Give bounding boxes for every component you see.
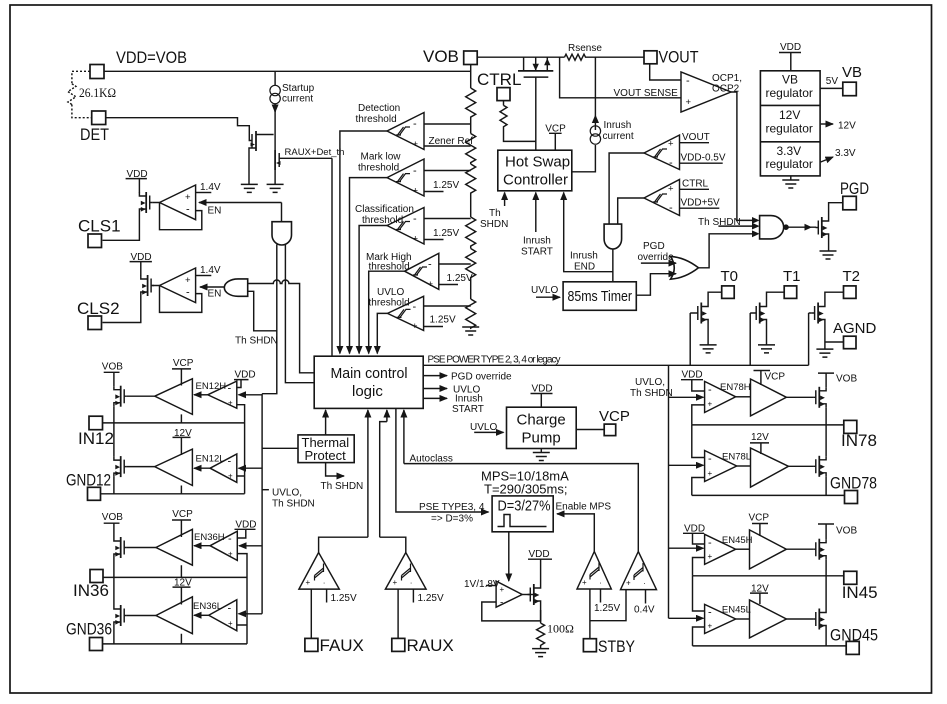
svg-text:Th SHDN: Th SHDN	[321, 481, 364, 492]
svg-text:VDD: VDD	[682, 370, 703, 381]
svg-text:EN45L: EN45L	[722, 605, 751, 616]
svg-text:-: -	[669, 157, 673, 169]
svg-text:100Ω: 100Ω	[547, 622, 574, 636]
svg-text:VCP: VCP	[749, 513, 770, 524]
svg-text:regulator: regulator	[766, 86, 813, 100]
svg-text:+: +	[228, 472, 233, 481]
svg-text:Th: Th	[489, 208, 501, 219]
svg-text:1V/1.8V: 1V/1.8V	[464, 579, 500, 590]
svg-text:IN45: IN45	[842, 583, 878, 602]
svg-text:Inrush: Inrush	[604, 120, 632, 131]
svg-text:VOB: VOB	[836, 526, 857, 537]
svg-text:VDD+5V: VDD+5V	[681, 198, 721, 209]
svg-text:Hot Swap: Hot Swap	[505, 154, 570, 171]
svg-text:D=3/27%: D=3/27%	[498, 498, 551, 515]
svg-text:RAUX: RAUX	[407, 636, 454, 655]
svg-text:Detection: Detection	[358, 103, 400, 114]
svg-text:IN36: IN36	[73, 581, 109, 600]
svg-text:STBY: STBY	[598, 637, 635, 656]
svg-text:.: .	[323, 577, 325, 586]
svg-text:-: -	[500, 598, 503, 609]
svg-text:T=290/305ms;: T=290/305ms;	[484, 482, 567, 497]
svg-text:T1: T1	[783, 268, 801, 285]
svg-text:1.25V: 1.25V	[433, 228, 459, 239]
svg-text:GND12: GND12	[66, 471, 111, 490]
svg-text:GND78: GND78	[830, 474, 877, 493]
svg-text:+: +	[708, 400, 713, 409]
svg-text:regulator: regulator	[766, 122, 813, 136]
svg-text:1.4V: 1.4V	[200, 265, 221, 276]
svg-text:Startup: Startup	[282, 83, 315, 94]
svg-text:Th SHDN: Th SHDN	[272, 499, 315, 510]
svg-text:+: +	[413, 139, 419, 150]
svg-text:-: -	[669, 202, 673, 214]
svg-text:DET: DET	[80, 125, 109, 144]
svg-text:Inrush: Inrush	[570, 251, 598, 262]
svg-text:FAUX: FAUX	[320, 636, 364, 655]
svg-text:EN78H: EN78H	[720, 382, 751, 393]
svg-text:threshold: threshold	[356, 114, 397, 125]
svg-text:+: +	[412, 321, 418, 332]
svg-text:1.4V: 1.4V	[200, 182, 221, 193]
svg-text:EN: EN	[208, 289, 222, 300]
svg-text:threshold: threshold	[358, 163, 399, 174]
svg-text:IN12: IN12	[78, 429, 114, 448]
svg-text:VDD-0.5V: VDD-0.5V	[681, 153, 726, 164]
svg-text:Classification: Classification	[355, 204, 414, 215]
svg-text:+: +	[413, 186, 419, 197]
svg-text:+: +	[185, 275, 191, 286]
svg-text:+: +	[306, 578, 311, 587]
svg-text:-: -	[413, 213, 417, 225]
svg-text:Controller: Controller	[503, 172, 568, 189]
svg-text:VB: VB	[782, 73, 798, 87]
svg-text:12V: 12V	[751, 432, 769, 443]
svg-text:-: -	[228, 603, 232, 615]
svg-text:Main control: Main control	[331, 365, 408, 382]
svg-text:CTRL: CTRL	[682, 179, 709, 190]
svg-text:Inrush: Inrush	[523, 236, 551, 247]
svg-text:12V: 12V	[838, 121, 856, 132]
svg-text:+: +	[626, 579, 631, 588]
svg-text:Th SHDN: Th SHDN	[630, 388, 673, 399]
svg-text:EN12H: EN12H	[196, 381, 227, 392]
svg-text:+: +	[500, 585, 505, 594]
svg-text:Autoclass: Autoclass	[410, 454, 453, 465]
svg-text:+: +	[428, 279, 434, 290]
svg-text:Zener Ref: Zener Ref	[429, 136, 474, 147]
svg-text:VOUT: VOUT	[659, 48, 699, 67]
svg-text:-: -	[686, 75, 690, 87]
svg-text:VCP: VCP	[172, 509, 193, 520]
svg-text:START: START	[521, 247, 553, 258]
svg-text:VCP: VCP	[765, 372, 786, 383]
svg-text:=> D=3%: => D=3%	[431, 514, 473, 525]
svg-text:EN36H: EN36H	[194, 532, 225, 543]
svg-text:current: current	[282, 94, 313, 105]
svg-text:+: +	[708, 469, 713, 478]
svg-text:EN36L: EN36L	[193, 601, 222, 612]
svg-text:1.25V: 1.25V	[331, 593, 357, 604]
svg-text:UVLO,: UVLO,	[272, 488, 302, 499]
svg-text:SHDN: SHDN	[480, 219, 508, 230]
svg-text:Charge: Charge	[517, 412, 566, 429]
svg-text:PGD: PGD	[840, 179, 869, 198]
svg-text:1.25V: 1.25V	[430, 315, 456, 326]
svg-text:VOB: VOB	[423, 47, 459, 66]
svg-text:END: END	[574, 262, 595, 273]
svg-text:+: +	[668, 139, 674, 150]
svg-text:AGND: AGND	[833, 320, 877, 337]
svg-text:+: +	[708, 552, 713, 561]
svg-text:GND36: GND36	[66, 620, 112, 639]
svg-text:EN45H: EN45H	[722, 535, 753, 546]
svg-text:PGD: PGD	[643, 241, 665, 252]
svg-text:CLS2: CLS2	[77, 299, 120, 318]
svg-text:logic: logic	[352, 383, 383, 400]
svg-text:VOUT SENSE: VOUT SENSE	[614, 88, 679, 99]
svg-text:VOB: VOB	[102, 512, 123, 523]
svg-text:UVLO: UVLO	[377, 287, 404, 298]
svg-text:+: +	[228, 550, 233, 559]
svg-text:-: -	[428, 259, 432, 271]
svg-text:VDD=VOB: VDD=VOB	[116, 48, 187, 67]
svg-text:PGD override: PGD override	[451, 372, 512, 383]
svg-text:VB: VB	[842, 64, 862, 81]
svg-text:+: +	[413, 234, 419, 245]
svg-text:CTRL: CTRL	[477, 70, 521, 89]
svg-text:-: -	[186, 204, 190, 216]
svg-text:VCP: VCP	[599, 408, 630, 425]
svg-text:VDD: VDD	[235, 370, 256, 381]
svg-text:VOUT: VOUT	[682, 132, 710, 143]
svg-text:5V: 5V	[826, 76, 839, 87]
svg-text:.: .	[410, 577, 412, 586]
svg-text:regulator: regulator	[766, 157, 813, 171]
svg-text:+: +	[708, 622, 713, 631]
svg-text:26.1KΩ: 26.1KΩ	[79, 85, 116, 100]
svg-text:current: current	[603, 131, 634, 142]
svg-text:UVLO: UVLO	[470, 422, 497, 433]
svg-text:-: -	[228, 533, 232, 545]
svg-text:-: -	[228, 456, 232, 468]
svg-text:3.3V: 3.3V	[835, 148, 856, 159]
svg-text:-: -	[186, 287, 190, 299]
svg-text:-: -	[413, 301, 417, 313]
svg-text:-: -	[708, 607, 712, 619]
svg-text:threshold: threshold	[369, 298, 410, 309]
svg-text:+: +	[228, 399, 233, 408]
svg-text:IN78: IN78	[841, 431, 877, 450]
svg-text:Rsense: Rsense	[568, 43, 602, 54]
svg-text:.: .	[644, 577, 646, 586]
svg-text:VDD: VDD	[780, 42, 801, 53]
svg-text:-: -	[708, 453, 712, 465]
svg-text:-: -	[708, 384, 712, 396]
svg-text:+: +	[668, 184, 674, 195]
svg-text:OCP1,: OCP1,	[712, 73, 742, 84]
svg-text:-: -	[228, 383, 232, 395]
svg-text:Th SHDN: Th SHDN	[235, 336, 278, 347]
svg-text:VOB: VOB	[102, 362, 123, 373]
svg-text:1.25V: 1.25V	[447, 273, 473, 284]
svg-text:VDD: VDD	[529, 549, 550, 560]
svg-text:T0: T0	[721, 268, 739, 285]
svg-text:VCP: VCP	[173, 358, 194, 369]
svg-text:Protect: Protect	[305, 448, 347, 463]
svg-text:EN12L: EN12L	[196, 454, 225, 465]
svg-text:85ms Timer: 85ms Timer	[568, 288, 633, 305]
svg-text:EN78L: EN78L	[722, 452, 751, 463]
svg-text:START: START	[452, 404, 484, 415]
svg-text:12V: 12V	[779, 108, 800, 122]
svg-text:T2: T2	[843, 268, 861, 285]
svg-text:+: +	[185, 192, 191, 203]
svg-text:override: override	[638, 252, 675, 263]
svg-text:GND45: GND45	[830, 626, 878, 645]
svg-text:CLS1: CLS1	[78, 217, 121, 236]
svg-text:OCP2: OCP2	[712, 84, 740, 95]
svg-text:.: .	[600, 577, 602, 586]
svg-text:UVLO: UVLO	[531, 285, 558, 296]
svg-text:UVLO,: UVLO,	[635, 377, 665, 388]
svg-text:Pump: Pump	[522, 430, 561, 447]
svg-text:RAUX+Det_th: RAUX+Det_th	[285, 147, 345, 158]
svg-text:3.3V: 3.3V	[777, 144, 802, 158]
svg-text:Mark low: Mark low	[361, 152, 402, 163]
svg-text:1.25V: 1.25V	[594, 603, 620, 614]
svg-text:0.4V: 0.4V	[634, 605, 655, 616]
svg-text:-: -	[413, 118, 417, 130]
svg-text:Enable MPS: Enable MPS	[556, 502, 612, 513]
svg-text:+: +	[686, 97, 692, 108]
svg-text:1.25V: 1.25V	[418, 593, 444, 604]
svg-text:Inrush: Inrush	[455, 394, 483, 405]
svg-text:EN: EN	[208, 206, 222, 217]
svg-text:+: +	[393, 578, 398, 587]
svg-text:+: +	[228, 619, 233, 628]
svg-text:-: -	[708, 537, 712, 549]
svg-text:+: +	[582, 578, 587, 587]
svg-text:VOB: VOB	[836, 374, 857, 385]
svg-text:-: -	[413, 165, 417, 177]
svg-text:PSE POWER TYPE 2, 3, 4 or lega: PSE POWER TYPE 2, 3, 4 or legacy	[428, 355, 561, 366]
svg-text:PSE TYPE3, 4: PSE TYPE3, 4	[419, 502, 485, 513]
svg-text:1.25V: 1.25V	[433, 180, 459, 191]
